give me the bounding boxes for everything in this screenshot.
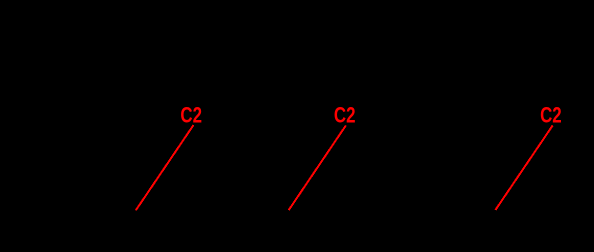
wire pointer line 1 (molecule 1, to atom C2): [136, 125, 194, 210]
svg-text:C2: C2: [540, 102, 562, 127]
svg-text:C2: C2: [180, 102, 202, 127]
wire pointer line 3 (molecule 3, to atom C2): [495, 125, 552, 210]
wire pointer line 2 (molecule 2, to atom C2): [289, 125, 346, 210]
svg-text:C2: C2: [334, 102, 356, 127]
